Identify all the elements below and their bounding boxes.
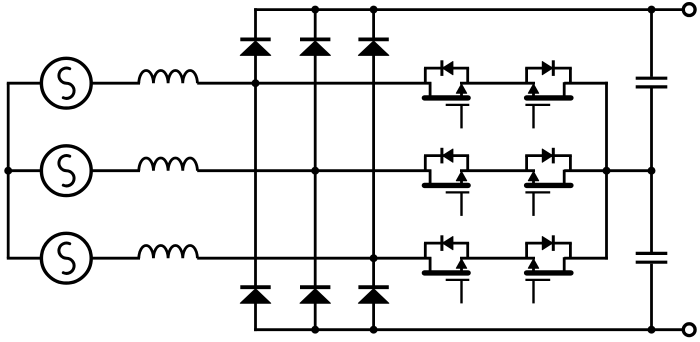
terminal: DC- output — [683, 324, 695, 336]
wire: Q2 drain to midpoint bus — [564, 82, 608, 85]
diode D3 (top, column 2, anode at phase node, cathode to +rail) — [300, 8, 330, 55]
AC source V3 (phase C) — [41, 233, 91, 283]
wire: capacitor rail, +rail to C1 — [650, 10, 653, 77]
wire: V3 to inductor L3 — [91, 257, 141, 260]
wire: L2 to bridge (phase B node) — [197, 169, 431, 172]
inductor L3 (phase C) — [139, 245, 198, 258]
wire: left rail to V1 — [7, 82, 43, 85]
AC source V1 (phase A) — [41, 58, 91, 108]
junction: DC midpoint at capacitor rail — [648, 167, 656, 175]
transistor Q1 (MOSFET with body diode, phase A left switch) — [424, 60, 469, 128]
transistor Q4 (MOSFET with body diode, phase B right switch) — [525, 148, 572, 216]
diode D5 (top, column 3, anode at phase node, cathode to +rail) — [358, 8, 388, 55]
junction: capacitor rail to -rail — [648, 326, 656, 334]
capacitor C2 (lower DC-link) — [636, 253, 668, 262]
wire: left rail to V3 — [7, 257, 43, 260]
transistor Q5 (MOSFET with body diode, phase C left switch) — [424, 235, 469, 303]
wire: DC midpoint to C2 — [650, 171, 653, 252]
junction: D1 column to phase A node — [252, 79, 260, 87]
inductor L2 (phase B) — [139, 158, 198, 171]
terminal: DC+ output — [683, 4, 695, 16]
wire: Q4 drain to DC midpoint — [564, 169, 651, 172]
wire: V1 to inductor L1 — [91, 82, 141, 85]
wire: left rail to V2 — [7, 169, 43, 172]
wire: C2 to -rail — [650, 264, 653, 330]
wire: Q1 source to Q2 source (phase A common point) — [460, 82, 535, 85]
diode D2 (bottom, column 1, anode at -rail, cathode to phase node) — [240, 287, 270, 331]
wire: Q6 drain to midpoint bus — [564, 257, 608, 260]
capacitor C1 (upper DC-link) — [636, 78, 668, 87]
transistor Q6 (MOSFET with body diode, phase C right switch) — [525, 235, 572, 303]
wire: positive DC rail (top) — [254, 8, 683, 11]
junction: midpoint bus to phase B switch wire — [603, 167, 611, 175]
wire: Q5 source to Q6 source (phase C common point) — [460, 257, 535, 260]
wire: L3 to bridge (phase C node) — [197, 257, 431, 260]
transistor Q3 (MOSFET with body diode, phase B left switch) — [424, 148, 469, 216]
wire: V2 to inductor L2 — [91, 169, 141, 172]
diode D6 (bottom, column 3, anode at -rail, cathode to phase node) — [358, 287, 388, 331]
junction: column 2 to -rail — [311, 326, 319, 334]
wire: left vertical rail joining the three source returns — [7, 83, 10, 258]
wire: negative DC rail (bottom) — [254, 328, 683, 331]
junction: D5 column to phase C node — [370, 254, 378, 262]
junction: column 2 to +rail — [311, 6, 319, 14]
transistor Q2 (MOSFET with body diode, phase A right switch) — [525, 60, 572, 128]
junction: column 3 to -rail — [370, 326, 378, 334]
diode D1 (top, column 1, anode at phase node, cathode to +rail) — [240, 8, 270, 55]
junction: capacitor rail to +rail — [648, 6, 656, 14]
wire: Q3 source to Q4 source (phase B common point) — [460, 169, 535, 172]
diode D4 (bottom, column 2, anode at -rail, cathode to phase node) — [300, 287, 330, 331]
junction: left rail to source V2 — [4, 167, 12, 175]
wire: column 1 vertical between top and bottom diodes — [254, 55, 257, 287]
wire: midpoint bus vertical joining the three switch-pair outputs — [605, 82, 608, 260]
junction: D3 column to phase B node — [311, 167, 319, 175]
junction: column 3 to +rail — [370, 6, 378, 14]
wire: L1 to bridge (phase A node) — [197, 82, 431, 85]
AC source V2 (phase B) — [41, 146, 91, 196]
wire: column 2 vertical between top and bottom diodes — [314, 55, 317, 287]
wire: column 3 vertical between top and bottom diodes — [372, 55, 375, 287]
inductor L1 (phase A) — [139, 70, 198, 83]
wire: C1 to DC midpoint — [650, 88, 653, 170]
